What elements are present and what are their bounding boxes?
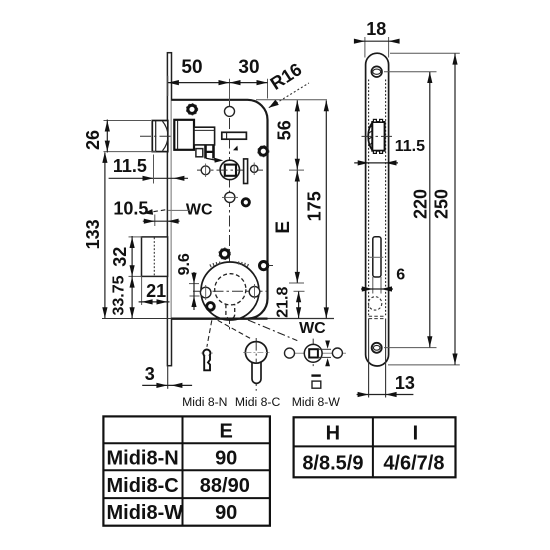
right lower screw	[260, 262, 274, 270]
svg-text:Midi8-N: Midi8-N	[107, 448, 179, 470]
top screw	[186, 104, 197, 115]
dimension 6	[361, 266, 405, 291]
svg-text:21.8: 21.8	[275, 287, 292, 318]
svg-text:8/8.5/9: 8/8.5/9	[302, 453, 363, 475]
svg-text:WC: WC	[186, 201, 213, 218]
svg-text:250: 250	[431, 189, 451, 219]
svg-text:10.5: 10.5	[113, 198, 148, 218]
svg-text:56: 56	[274, 120, 294, 140]
circle right of hub	[251, 165, 258, 172]
side view bottom screw hole	[372, 343, 382, 353]
svg-text:E: E	[273, 221, 294, 234]
circle left of hub	[201, 166, 210, 175]
side view latch centerline	[362, 135, 393, 137]
side view faceplate outline	[366, 53, 389, 366]
circle right of cylinder	[249, 286, 260, 297]
svg-text:26: 26	[83, 130, 103, 150]
right screw	[258, 146, 269, 157]
hub square	[225, 165, 236, 176]
svg-text:WC: WC	[299, 320, 326, 337]
dashed euro profile	[215, 274, 246, 319]
dimension 21	[139, 277, 170, 305]
svg-text:11.5: 11.5	[113, 156, 147, 176]
dimension 26	[83, 120, 156, 153]
case bottom line over cylinder	[171, 318, 267, 320]
WC square size dimension	[318, 341, 331, 367]
hub horizontal centerline	[197, 169, 263, 171]
dimension 9.6	[176, 253, 200, 310]
latch centerline	[140, 135, 217, 137]
hub circle	[220, 160, 239, 179]
svg-text:4/6/7/8: 4/6/7/8	[383, 453, 444, 475]
lever bar	[244, 159, 248, 184]
dimension 175	[304, 100, 329, 318]
svg-text:6: 6	[396, 266, 405, 283]
table H I	[294, 417, 456, 477]
leader to Midi 8-W	[248, 320, 297, 341]
WC lower square	[312, 381, 321, 388]
euro cylinder Midi 8-C	[243, 338, 270, 391]
dimension 250	[388, 53, 460, 365]
svg-text:H: H	[326, 422, 340, 444]
dimension 56	[256, 100, 327, 170]
small dark screw	[242, 199, 249, 206]
side view 6-dim extension lines	[373, 277, 381, 294]
side view latch block	[368, 119, 384, 153]
circle left of cylinder	[200, 287, 211, 298]
svg-text:9.6: 9.6	[176, 253, 193, 275]
dimension 133	[83, 152, 108, 318]
svg-text:11.5: 11.5	[395, 138, 425, 155]
svg-text:50: 50	[181, 57, 202, 78]
dimension 11.5 side	[354, 138, 425, 166]
svg-text:18: 18	[366, 19, 386, 39]
svg-text:21: 21	[146, 281, 166, 301]
circle below hub	[225, 192, 235, 202]
WC spindle Midi 8-W	[284, 339, 346, 368]
WC lower tick	[311, 374, 320, 376]
dimension E	[273, 170, 304, 283]
side view dashed case bottom	[369, 316, 386, 318]
svg-text:133: 133	[83, 219, 103, 249]
svg-text:Midi 8-W: Midi 8-W	[292, 395, 341, 409]
latch stem	[194, 127, 215, 145]
lock case outline	[171, 100, 267, 319]
faceplate front view	[167, 53, 171, 389]
dimension 13	[357, 373, 415, 397]
knurl ticks on big circle	[210, 263, 222, 266]
top circle	[225, 106, 235, 116]
dimension 32	[110, 236, 142, 277]
svg-text:13: 13	[395, 373, 415, 393]
dimension 18	[354, 19, 400, 58]
slide bar	[222, 132, 247, 139]
latch body	[174, 120, 194, 150]
centerline ticks	[206, 163, 255, 301]
big cylinder circle	[201, 262, 259, 320]
svg-text:Midi8-W: Midi8-W	[107, 502, 184, 524]
H leader arrow	[206, 158, 223, 163]
dimension 50/30	[168, 57, 268, 101]
side view top screw hole	[371, 66, 382, 77]
svg-text:90: 90	[215, 448, 237, 470]
WC pointer line	[168, 209, 189, 211]
svg-text:220: 220	[410, 189, 430, 219]
svg-text:Midi 8-N: Midi 8-N	[182, 395, 227, 409]
svg-text:33.75: 33.75	[111, 275, 128, 315]
leader to Midi 8-N	[207, 320, 212, 347]
dimension R16	[267, 59, 309, 108]
svg-text:32: 32	[110, 247, 130, 267]
side view dashed hole	[368, 297, 381, 310]
keyhole Midi 8-N	[201, 350, 213, 371]
mid-left screw	[219, 248, 231, 260]
left protruding box	[142, 237, 168, 277]
dark screw in cylinder	[207, 303, 215, 311]
cylinder area horizontal centerline	[193, 290, 267, 292]
dimension 3	[142, 364, 192, 388]
vertical centerline	[229, 79, 231, 332]
dimension 33.75	[111, 275, 135, 318]
dimension 21.8	[275, 287, 305, 319]
svg-text:30: 30	[238, 57, 259, 78]
leader to Midi 8-C	[218, 320, 253, 339]
svg-text:Midi8-C: Midi8-C	[107, 475, 179, 497]
svg-text:88/90: 88/90	[200, 475, 250, 497]
svg-text:175: 175	[304, 191, 324, 221]
side view cylinder slot	[369, 237, 383, 277]
H reference square	[196, 149, 203, 157]
table E	[103, 416, 270, 525]
corner marker	[233, 146, 238, 151]
dimension 220	[384, 72, 437, 348]
svg-text:Midi 8-C: Midi 8-C	[235, 395, 281, 409]
case bottom extension line	[102, 318, 334, 320]
svg-text:E: E	[220, 420, 233, 442]
svg-text:3: 3	[145, 364, 155, 384]
side view inner case lines	[369, 80, 386, 398]
dimension 11.5 front	[109, 155, 188, 184]
svg-text:90: 90	[215, 502, 237, 524]
dimension 10.5	[113, 198, 179, 226]
svg-text:I: I	[413, 422, 419, 444]
latch head	[152, 121, 168, 152]
